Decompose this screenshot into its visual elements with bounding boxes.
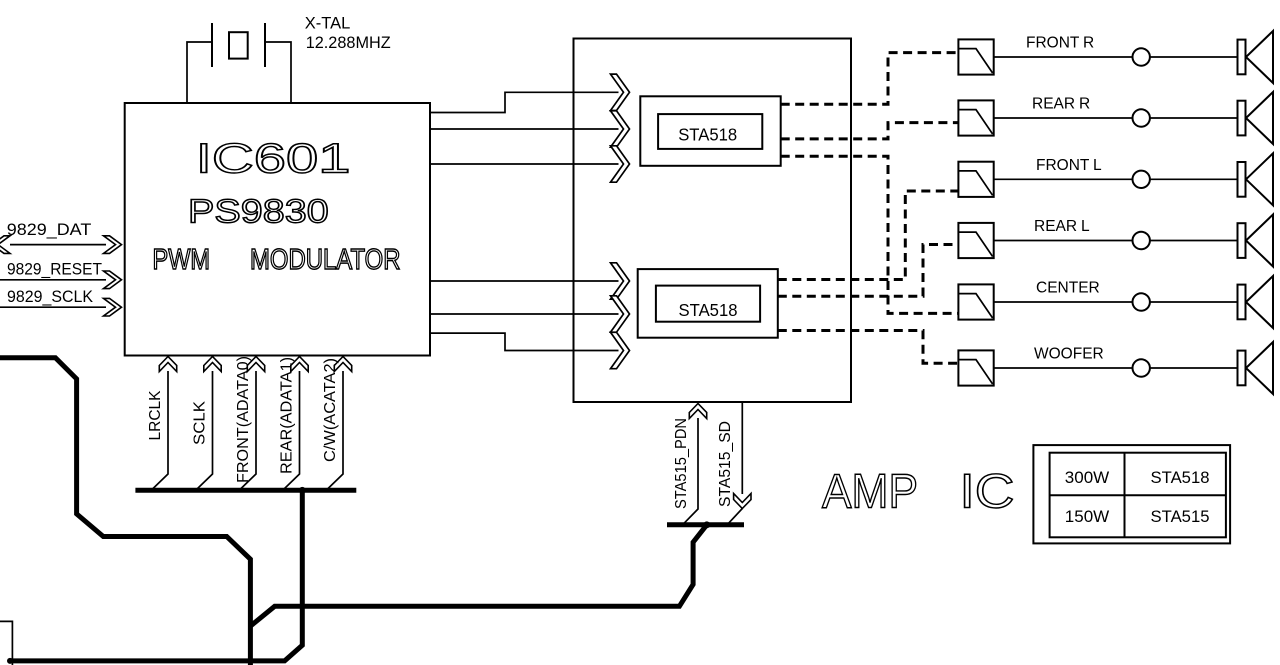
wire REAR L filter to connector — [994, 240, 1133, 242]
wire thick bottom run to STA515 bus — [250, 525, 706, 626]
svg-text:STA518: STA518 — [1151, 468, 1210, 487]
svg-text:MODULATOR: MODULATOR — [250, 244, 401, 276]
wire CENTER filter to connector — [994, 301, 1133, 303]
amplifier block box — [574, 39, 852, 403]
wire dashed top STA518 output 1 to FRONT R filter — [781, 53, 959, 105]
IC601 function label PWM MODULATOR — [153, 244, 401, 276]
wire dashed bottom STA518 output 2 to REAR L filter — [778, 245, 959, 297]
arrow 9829_SCLK chevron into IC601 — [104, 298, 122, 316]
svg-text:SCLK: SCLK — [192, 401, 209, 445]
node REAR R connector circle — [1133, 109, 1150, 126]
wire IC601 pin to top STA518 input 1 — [429, 92, 618, 112]
filter L3 FRONT L lowpass box — [958, 162, 993, 197]
svg-text:PWM: PWM — [153, 244, 211, 276]
wire FRONT(ADATA0) from IC601 — [240, 371, 256, 490]
svg-text:REAR: REAR — [1032, 96, 1075, 113]
filter L5 CENTER lowpass box — [958, 284, 993, 319]
node CENTER connector circle — [1133, 293, 1150, 310]
svg-text:150W: 150W — [1065, 507, 1109, 526]
wire 9829_DAT — [10, 244, 106, 246]
wire STA515_SD with chevron out of amp block — [729, 402, 752, 523]
wire IC601 pin to bottom STA518 input 2 — [429, 313, 618, 315]
arrow 9829_RESET chevron into IC601 — [104, 271, 122, 289]
wire thick IC601 signal bus — [135, 488, 356, 493]
speaker SP2 REAR R — [1238, 92, 1274, 144]
svg-text:R: R — [1079, 96, 1090, 113]
wire REAR L connector to speaker — [1150, 240, 1238, 242]
speaker SP5 CENTER — [1238, 276, 1274, 328]
svg-text:IC601: IC601 — [196, 134, 351, 181]
svg-text:X-TAL: X-TAL — [305, 15, 351, 33]
op-amp U2 bottom STA518 outer box — [638, 269, 778, 338]
node WOOFER connector circle — [1133, 359, 1150, 376]
arrow chevron REAR(ADATA1) into IC601 — [291, 357, 308, 372]
wire dashed bottom STA518 output 3 to WOOFER filter — [778, 331, 959, 364]
op-amp U2 bottom STA518 inner box — [656, 286, 760, 322]
svg-text:AMP: AMP — [822, 465, 918, 518]
wire FRONT L filter to connector — [994, 178, 1133, 180]
junction dot on IC601 bus — [299, 487, 306, 494]
arrow chevron LRCLK into IC601 — [159, 357, 176, 372]
op-amp U1 top STA518 inner box — [658, 114, 762, 149]
svg-text:L: L — [1093, 157, 1102, 174]
wire FRONT R connector to speaker — [1150, 56, 1238, 58]
svg-text:FRONT(ADATA0): FRONT(ADATA0) — [235, 356, 252, 483]
speaker SP4 REAR L — [1238, 215, 1274, 267]
arrow chevron input 3 bottom STA518 — [611, 332, 630, 368]
svg-text:9829_DAT: 9829_DAT — [7, 220, 92, 239]
wire STA515_PDN with chevron into amp block — [684, 404, 707, 524]
arrow chevron input 2 top STA518 — [611, 111, 630, 147]
wire C/W(ACATA2) from IC601 — [327, 371, 343, 490]
svg-text:9829_SCLK: 9829_SCLK — [7, 287, 94, 306]
wire IC601 pin to top STA518 input 2 — [429, 128, 618, 130]
arrow chevron SCLK into IC601 — [204, 357, 221, 372]
amp table inner grid — [1050, 453, 1226, 538]
arrow chevron input 1 bottom STA518 — [611, 263, 630, 299]
node REAR L connector circle — [1133, 232, 1150, 249]
filter L2 REAR R lowpass box — [958, 100, 993, 135]
svg-text:300W: 300W — [1065, 468, 1109, 487]
label AMP IC — [822, 465, 1015, 518]
filter L6 WOOFER lowpass box — [958, 350, 993, 385]
amp table outer box — [1033, 445, 1230, 543]
node FRONT L connector circle — [1133, 171, 1150, 188]
wire thick power rail left — [0, 358, 250, 665]
arrow chevron C/W(ACATA2) into IC601 — [334, 357, 351, 372]
svg-text:REAR: REAR — [1034, 218, 1077, 235]
filter L4 REAR L lowpass box — [958, 223, 993, 258]
wire IC601 pin to bottom STA518 input 3 — [429, 333, 618, 350]
op-amp U1 top STA518 outer box — [640, 96, 780, 166]
svg-text:12.288MHZ: 12.288MHZ — [306, 34, 391, 52]
filter L1 FRONT R lowpass box — [958, 39, 993, 74]
crystal X-TAL symbol — [212, 23, 265, 67]
wire FRONT R filter to connector — [994, 56, 1133, 58]
wire thick from bus down to bottom rail — [10, 490, 302, 661]
wire thick STA515 control bus — [667, 522, 744, 527]
crystal X-TAL right lead wire — [265, 42, 291, 103]
junction dot bottom rail left end — [7, 658, 13, 664]
wire dashed bottom STA518 output 1 to FRONT L filter — [778, 191, 959, 280]
svg-text:R: R — [1083, 35, 1094, 52]
svg-text:FRONT: FRONT — [1026, 35, 1080, 52]
svg-text:IC: IC — [960, 465, 1015, 518]
wire REAR R filter to connector — [994, 117, 1133, 119]
arrow 9829_DAT left chevron — [0, 236, 10, 254]
svg-text:STA515_PDN: STA515_PDN — [673, 418, 690, 509]
speaker SP1 FRONT R — [1238, 31, 1274, 83]
svg-text:CENTER: CENTER — [1036, 280, 1100, 297]
wire 9829_RESET — [0, 279, 106, 281]
crystal label X-TAL 12.288MHZ — [305, 15, 391, 53]
svg-text:C/W(ACATA2): C/W(ACATA2) — [322, 358, 339, 462]
svg-text:PS9830: PS9830 — [188, 193, 329, 230]
svg-text:STA515_SD: STA515_SD — [717, 421, 734, 507]
wire IC601 pin to top STA518 input 3 — [429, 163, 618, 165]
arrow chevron input 1 top STA518 — [611, 74, 630, 110]
svg-text:REAR(ADATA1): REAR(ADATA1) — [279, 357, 296, 474]
wire dashed top STA518 output 2 to REAR R filter — [781, 123, 959, 139]
svg-text:STA518: STA518 — [678, 125, 737, 145]
wire WOOFER connector to speaker — [1150, 367, 1238, 369]
svg-text:L: L — [1081, 218, 1090, 235]
wire SCLK from IC601 — [197, 371, 213, 490]
wire REAR R connector to speaker — [1150, 117, 1238, 119]
svg-text:STA518: STA518 — [679, 300, 738, 320]
wire dashed top STA518 output 3 to CENTER filter — [781, 156, 959, 313]
wire WOOFER filter to connector — [994, 367, 1133, 369]
svg-text:WOOFER: WOOFER — [1034, 346, 1104, 363]
IC601 PWM modulator box — [125, 103, 430, 356]
wire FRONT L connector to speaker — [1150, 178, 1238, 180]
node partial box bottom left — [0, 621, 12, 665]
speaker SP3 FRONT L — [1238, 153, 1274, 205]
arrow 9829_DAT right chevron into IC601 — [104, 236, 122, 254]
junction dot on STA515 bus — [703, 521, 710, 528]
node FRONT R connector circle — [1133, 48, 1150, 65]
wire REAR(ADATA1) from IC601 — [284, 371, 300, 490]
speaker SP6 WOOFER — [1238, 342, 1274, 394]
arrow chevron input 2 bottom STA518 — [611, 296, 630, 332]
wire 9829_SCLK — [0, 306, 106, 308]
wire IC601 pin to bottom STA518 input 1 — [429, 280, 618, 282]
svg-text:9829_RESET: 9829_RESET — [7, 260, 102, 279]
crystal X-TAL left lead wire — [187, 42, 212, 103]
svg-text:LRCLK: LRCLK — [147, 390, 164, 440]
svg-text:FRONT: FRONT — [1036, 157, 1090, 174]
svg-text:STA515: STA515 — [1151, 507, 1210, 526]
wire LRCLK from IC601 — [152, 371, 168, 490]
wire CENTER connector to speaker — [1150, 301, 1238, 303]
arrow chevron input 3 top STA518 — [611, 146, 630, 182]
arrow chevron FRONT(ADATA0) into IC601 — [247, 357, 264, 372]
